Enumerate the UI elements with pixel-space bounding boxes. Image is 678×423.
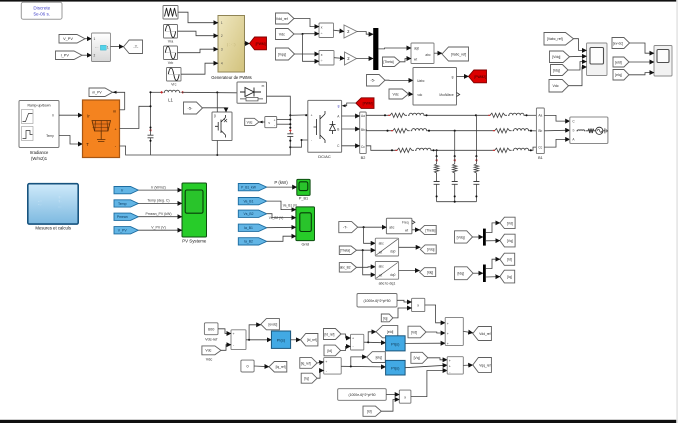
svg-text:Vrc: Vrc bbox=[171, 83, 176, 87]
svg-text:[Iq]: [Iq] bbox=[507, 275, 512, 279]
svg-text:Aa: Aa bbox=[538, 114, 542, 118]
wire Vdc to sum minus bbox=[221, 345, 231, 351]
svg-text:Temp (deg. C): Temp (deg. C) bbox=[147, 199, 169, 203]
PLL block bbox=[386, 218, 412, 234]
From tag Temp blue bbox=[114, 200, 138, 207]
diode block D1 bbox=[237, 82, 267, 103]
bottom DC rail bbox=[120, 146, 291, 155]
svg-text:-: - bbox=[274, 124, 275, 128]
wire Theta to dq0-abc wt bbox=[400, 59, 411, 62]
From tag V_PV bbox=[59, 35, 85, 44]
wire B1 to source B port bbox=[544, 129, 570, 132]
svg-text:Vdc: Vdc bbox=[553, 84, 559, 88]
svg-text:+: + bbox=[352, 336, 354, 340]
svg-text:g: g bbox=[338, 104, 340, 108]
svg-text:Ramp-up/down: Ramp-up/down bbox=[28, 103, 51, 107]
wire Id sum to PI d and eId bbox=[364, 341, 386, 344]
Goto tag [eId] bbox=[376, 326, 398, 338]
From tag [Vqq] bbox=[276, 48, 295, 60]
wire DC bus to inverter plus bbox=[290, 114, 308, 116]
svg-text:[Id_ref]: [Id_ref] bbox=[324, 332, 334, 336]
load branch tap phase A bbox=[475, 115, 477, 156]
svg-text:V_PV (V): V_PV (V) bbox=[151, 225, 166, 229]
wire PV plus to DC bus bbox=[120, 106, 151, 128]
wire Vdq to scope1 bbox=[570, 55, 587, 58]
From tag Vs_B2 blue bbox=[238, 210, 266, 217]
svg-text:+: + bbox=[449, 365, 451, 369]
phase A feeder wire bbox=[366, 114, 388, 116]
svg-text:-5-: -5- bbox=[188, 105, 194, 110]
svg-text:wt: wt bbox=[379, 274, 382, 278]
svg-text:[ev-dc]: [ev-dc] bbox=[613, 41, 623, 45]
RL branch phase B resistor bbox=[391, 129, 410, 133]
wire Vs_B2 to Grid scope bbox=[267, 214, 296, 218]
svg-text:wt: wt bbox=[414, 58, 417, 62]
wire inverter B to B2 bbox=[342, 128, 360, 130]
svg-text:B2: B2 bbox=[361, 156, 366, 160]
Goto tag [Id] bbox=[500, 253, 515, 265]
svg-text:dq0: dq0 bbox=[390, 250, 396, 254]
wire gain1 to mux bbox=[357, 32, 373, 35]
phase A wire to grid side bbox=[425, 114, 488, 116]
frame top border bbox=[0, 0, 678, 2]
From tag Ir blue bbox=[114, 187, 138, 194]
PV array block bbox=[83, 100, 120, 158]
inverter IGBT icon bbox=[314, 111, 326, 143]
wire Idq to demux2 bbox=[473, 272, 483, 274]
wire eId to scope2 bbox=[629, 61, 654, 63]
svg-text:Temp: Temp bbox=[46, 134, 54, 138]
wire Vdq to demux1 bbox=[473, 236, 484, 238]
svg-text:÷: ÷ bbox=[321, 59, 323, 63]
From tag [Vdq] demux feed bbox=[455, 231, 473, 243]
wire 600 to sum bbox=[218, 329, 231, 334]
wire Temp to PV scope bbox=[138, 202, 182, 204]
scope Scope1 bbox=[587, 43, 608, 76]
From tag abc_B2 bbox=[339, 263, 356, 273]
wire Vdc to scope1 bbox=[569, 67, 587, 86]
wire V_PV to PV scope bbox=[138, 229, 182, 231]
wire -5- to IGBT gate bbox=[203, 108, 227, 112]
wire Va_B1 to Grid scope bbox=[267, 201, 296, 210]
svg-text:[Id]: [Id] bbox=[367, 410, 372, 414]
svg-text:[Iq]: [Iq] bbox=[383, 316, 388, 320]
From tag [Vd] feed bbox=[408, 326, 426, 338]
inductor L1 bbox=[160, 91, 162, 93]
scope PV Systeme green bbox=[182, 183, 207, 237]
wire Id to product2 bbox=[381, 400, 399, 412]
svg-text:+: + bbox=[447, 322, 449, 326]
From tag [Iq_ref] feed bbox=[300, 358, 317, 369]
From tag [Vq] feed bbox=[411, 352, 428, 363]
product block wL Iq bbox=[412, 298, 425, 311]
svg-text:[Vqq]: [Vqq] bbox=[278, 52, 286, 56]
svg-text:g: g bbox=[452, 75, 454, 79]
Goto tag Vdc measure bbox=[245, 118, 259, 125]
wire diode out to DC bus right bbox=[267, 96, 291, 115]
svg-text:5e-06 s.: 5e-06 s. bbox=[33, 11, 50, 16]
svg-text:V_PV: V_PV bbox=[63, 37, 73, 41]
svg-text:B: B bbox=[337, 127, 339, 131]
wire Vabc_ref to scope1 bbox=[574, 39, 587, 51]
svg-text:Grid: Grid bbox=[302, 241, 309, 246]
constant wL lower (1000e-6)*2*pi*50 bbox=[338, 389, 387, 401]
From tag Pmean blue bbox=[114, 213, 138, 220]
svg-text:[Theta]: [Theta] bbox=[425, 228, 435, 232]
sum block Vdc error bbox=[231, 330, 246, 350]
demux Demux2 bbox=[483, 265, 486, 283]
voltage measurement block Vdc bbox=[265, 117, 277, 128]
From tag P_B1_kW blue bbox=[238, 184, 266, 191]
svg-text:[Iq_ref]: [Iq_ref] bbox=[276, 365, 286, 369]
wire demux1 to Vd bbox=[486, 223, 500, 233]
svg-text:dq0: dq0 bbox=[414, 47, 420, 51]
svg-text:x: x bbox=[321, 53, 323, 57]
svg-text:DC/AC: DC/AC bbox=[318, 154, 331, 159]
wire Iq to product bbox=[393, 308, 412, 318]
wire L1 to diode node bbox=[182, 91, 238, 94]
wire demux2 to Iq bbox=[486, 276, 500, 278]
wire -T- to PLL and abc-dq0 bbox=[358, 226, 387, 228]
svg-text:PI(s): PI(s) bbox=[277, 337, 286, 342]
svg-text:[Vabc_ref]: [Vabc_ref] bbox=[547, 37, 563, 41]
RC load branch 2 bbox=[454, 155, 456, 157]
sum block Vq_ref three input bbox=[447, 357, 463, 374]
From tag [eId] bbox=[613, 57, 629, 67]
From tag [Id] cross coupling bbox=[363, 406, 381, 416]
svg-text:[PWM]: [PWM] bbox=[363, 101, 373, 105]
frame bottom border bbox=[0, 420, 678, 423]
wire Iq_ref to sum bbox=[317, 362, 324, 363]
svg-text:Vs_B2 (V): Vs_B2 (V) bbox=[269, 216, 284, 220]
wire Ia_B1 to Grid scope bbox=[267, 226, 296, 228]
svg-text:x: x bbox=[417, 303, 419, 307]
svg-text:+: + bbox=[233, 332, 235, 336]
wire ev-dc to scope2 bbox=[630, 43, 655, 53]
PI controller dc PI(s) bbox=[271, 331, 290, 348]
svg-text:Vdc: Vdc bbox=[279, 32, 285, 36]
svg-text:abc: abc bbox=[425, 53, 431, 57]
svg-text:(1000e-6)*2*pi*50: (1000e-6)*2*pi*50 bbox=[364, 299, 391, 303]
wire PWM tag to inverter g bbox=[345, 103, 355, 106]
svg-text:Aa: Aa bbox=[361, 114, 365, 118]
From tag Vdd_ref bbox=[276, 13, 295, 24]
phase B wire to grid side bbox=[428, 130, 493, 132]
grid RL phase B inductor bbox=[513, 129, 530, 131]
From tag [eIq] bbox=[613, 70, 629, 81]
svg-text:P_B1_kW: P_B1_kW bbox=[241, 186, 257, 190]
grid RL phase C resistor bbox=[493, 148, 512, 152]
wire Vd to big sum bbox=[426, 332, 445, 333]
Goto tag m_PV bbox=[89, 88, 113, 97]
svg-text:Vdc: Vdc bbox=[205, 349, 211, 353]
three-phase measurement block B1 bbox=[536, 108, 544, 154]
svg-text:[PWM]: [PWM] bbox=[256, 42, 266, 46]
svg-text:T: T bbox=[86, 142, 89, 147]
svg-text:[Vd]: [Vd] bbox=[507, 221, 513, 225]
wire PI d to sum Vd bbox=[405, 342, 445, 344]
grid RL phase A inductor bbox=[508, 113, 525, 115]
svg-text:[Iq]: [Iq] bbox=[304, 377, 309, 381]
wire 0 to Iq_ref goto bbox=[254, 365, 269, 368]
abc to dq0 transform block 1 bbox=[375, 238, 398, 256]
svg-text:÷: ÷ bbox=[321, 32, 323, 36]
svg-text:[Iq_ref]: [Iq_ref] bbox=[301, 361, 311, 365]
svg-text:abc_B2: abc_B2 bbox=[340, 266, 351, 270]
scope P_B1 green bbox=[297, 179, 310, 195]
svg-text:(W/m2)1: (W/m2)1 bbox=[31, 156, 48, 161]
From tag [Iq] cross coupling bbox=[381, 314, 393, 322]
wire inverter C to B2 bbox=[342, 145, 360, 147]
PI controller d axis PI(s) bbox=[386, 336, 406, 351]
svg-text:Ia_B2: Ia_B2 bbox=[244, 240, 253, 244]
svg-text:V_PV: V_PV bbox=[118, 229, 128, 233]
Goto tag [PWM2] red bbox=[469, 70, 487, 83]
svg-text:[eIq]: [eIq] bbox=[615, 73, 622, 77]
From tag -5- boost gate bbox=[184, 102, 203, 114]
wire mux to dq0-abc bbox=[378, 47, 411, 50]
three-phase source block bbox=[570, 117, 608, 144]
svg-text:abc: abc bbox=[379, 241, 385, 245]
wire IGBT emitter to bottom rail bbox=[216, 141, 218, 156]
wire abc_B2 to dq0 block2 bbox=[357, 266, 376, 269]
Goto tag [Vqq_ref] bbox=[473, 358, 492, 373]
Goto tag [Iq_ref] bbox=[269, 362, 287, 373]
svg-text:Pmean_PV (kW): Pmean_PV (kW) bbox=[145, 212, 171, 216]
svg-text:[Vdq]: [Vdq] bbox=[427, 248, 435, 252]
svg-text:: : :: : : : bbox=[58, 206, 62, 209]
Goto tag [Vq] bbox=[500, 234, 515, 247]
inverter block DC/AC bbox=[308, 100, 342, 152]
svg-text:v: v bbox=[268, 121, 270, 125]
Goto tag [eIq] bbox=[367, 352, 386, 363]
svg-text:-T-: -T- bbox=[133, 44, 139, 49]
svg-text:Vdd_ref: Vdd_ref bbox=[276, 17, 288, 21]
From tag Vdc scope feed bbox=[549, 80, 569, 93]
svg-text:( : · : ): ( : · : ) bbox=[227, 42, 236, 46]
svg-text:1: 1 bbox=[221, 21, 223, 25]
wire PLL wt to Theta goto bbox=[412, 229, 420, 231]
svg-text:vdc: vdc bbox=[417, 93, 422, 97]
wire PI q to sum Vq bbox=[405, 365, 447, 368]
Goto tag [Theta] pll out bbox=[420, 225, 437, 234]
svg-text:P_B1: P_B1 bbox=[299, 197, 308, 201]
wire PWM gen to PWM goto bbox=[245, 43, 250, 45]
Goto tag [Idq] bbox=[420, 268, 436, 277]
svg-text:Mesures et calculs: Mesures et calculs bbox=[35, 226, 71, 231]
svg-text:Bb: Bb bbox=[538, 129, 542, 133]
triangle wave source bbox=[163, 6, 178, 20]
svg-text:Bb: Bb bbox=[361, 128, 365, 132]
wire P_B1_kW to P_B1 scope bbox=[267, 186, 297, 188]
From tag [Theta] top bbox=[383, 57, 401, 67]
wire Pmean to PV scope bbox=[138, 216, 182, 218]
sum block Id error bbox=[351, 334, 364, 350]
wire Irradiance Temp to PV array T bbox=[59, 136, 83, 145]
svg-text:[Idq]: [Idq] bbox=[457, 272, 464, 276]
svg-text:Pmean: Pmean bbox=[117, 215, 128, 219]
From tag I_PV bbox=[56, 51, 83, 60]
svg-text:x: x bbox=[404, 395, 406, 399]
svg-text:+: + bbox=[274, 118, 276, 122]
divide block 2 bbox=[319, 51, 334, 66]
From tag -5- upper bbox=[367, 75, 386, 87]
scope Scope2 bbox=[654, 46, 672, 77]
sine source Vrc bbox=[167, 68, 182, 82]
svg-text:[eIq]: [eIq] bbox=[376, 355, 382, 359]
svg-text:+: + bbox=[449, 359, 451, 363]
Goto tag [evdc] bbox=[261, 319, 280, 330]
wire product to big sum top bbox=[425, 305, 445, 323]
RL branch phase B inductor bbox=[411, 129, 428, 131]
wire dq0 block1 to Vdq goto bbox=[399, 246, 421, 248]
wire triangle to PWM gen port1 bbox=[178, 12, 218, 23]
svg-text:2: 2 bbox=[94, 54, 96, 58]
svg-text:[Id_ref]: [Id_ref] bbox=[307, 338, 317, 342]
wire I_PV to selector port 2 bbox=[82, 54, 92, 56]
From tag [Idq] demux feed bbox=[455, 267, 474, 280]
From tag Vdc bbox=[276, 29, 295, 40]
svg-text:[Vq]: [Vq] bbox=[507, 239, 513, 243]
From tag Va_B1 blue bbox=[238, 198, 266, 205]
svg-text:wt: wt bbox=[405, 229, 408, 233]
wire PV m to m_PV tag bbox=[113, 92, 125, 110]
wire demux1 to Vq bbox=[486, 240, 500, 242]
wire V measure plus to bus bbox=[277, 119, 291, 121]
PV array solar panel icon bbox=[92, 121, 111, 142]
wire Vrc to PWM gen port4 bbox=[181, 63, 218, 74]
svg-text:Vrb: Vrb bbox=[168, 61, 173, 65]
svg-text:Temp: Temp bbox=[118, 202, 127, 206]
wire Vq to sum q bbox=[428, 358, 447, 360]
svg-text:Vra: Vra bbox=[168, 40, 173, 44]
From tag [Id_ref] feed bbox=[324, 329, 342, 340]
Goto tag [Vdq] bbox=[420, 245, 436, 254]
From tag [PWM] red inverter gate bbox=[356, 98, 374, 109]
From tag Ia_B2 blue bbox=[238, 238, 266, 245]
constant 600 Vdc-ref bbox=[204, 323, 218, 335]
wire Iq sum to PI q and eIq bbox=[341, 365, 385, 368]
load branch tap phase B bbox=[454, 131, 456, 157]
RC load branch 3 bbox=[475, 155, 477, 157]
wire V_PV to selector port 1 bbox=[85, 38, 92, 40]
phase C wire to grid side bbox=[432, 149, 493, 151]
svg-text:b: b bbox=[573, 128, 575, 132]
wire Vdd_ref to divide1 bbox=[294, 19, 319, 27]
scope Grid green bbox=[296, 207, 315, 241]
svg-text:600: 600 bbox=[208, 327, 214, 331]
wire eIq to scope2 bbox=[629, 73, 654, 75]
Goto tag [PWM] red bbox=[250, 37, 267, 50]
svg-text:x: x bbox=[321, 26, 323, 30]
svg-text:3: 3 bbox=[221, 47, 223, 51]
wire Vdc to divide1 and divide2 bbox=[294, 33, 319, 35]
svg-text:Generateur de PWMs: Generateur de PWMs bbox=[211, 75, 252, 80]
grid RL phase B resistor bbox=[493, 129, 512, 133]
wire DC rail to IGBT collector bbox=[216, 92, 218, 112]
wire constant to product bbox=[397, 300, 412, 302]
DC bus capacitor C2 bbox=[289, 115, 291, 129]
DC link vertical bus left bbox=[150, 92, 152, 127]
wire Vra to PWM gen port2 bbox=[178, 31, 219, 36]
sum block Iq error bbox=[324, 358, 342, 375]
svg-text:P (kW): P (kW) bbox=[274, 180, 288, 185]
svg-text:Cc: Cc bbox=[538, 145, 542, 149]
wire PI dc to Id_ref goto bbox=[291, 339, 301, 341]
wire divide2 to gain2 bbox=[334, 57, 345, 60]
dq0 to abc transform block bbox=[411, 43, 434, 64]
RL branch phase A inductor bbox=[408, 113, 425, 115]
svg-text:0: 0 bbox=[246, 365, 248, 369]
svg-text:m: m bbox=[262, 84, 265, 88]
wire Irradiance Ir to PV array bbox=[59, 114, 83, 116]
demux Demux1 bbox=[483, 229, 486, 246]
svg-text:Ia_B1: Ia_B1 bbox=[244, 226, 253, 230]
source internal impedance icon bbox=[577, 130, 586, 131]
svg-text:~ : ·: ~ : · bbox=[38, 203, 42, 206]
subsystem Mesures et calculs bbox=[28, 184, 78, 224]
wire big sum to Vdd_ref goto bbox=[463, 331, 473, 332]
svg-text:[Vdq]: [Vdq] bbox=[457, 235, 465, 239]
svg-text:Va_B1 (V): Va_B1 (V) bbox=[283, 203, 297, 207]
wire subsystem g to PWM2 goto bbox=[457, 75, 469, 77]
RL branch phase C inductor bbox=[415, 148, 432, 150]
svg-text:2: 2 bbox=[221, 34, 223, 38]
wire Vqq to divide2 bbox=[295, 53, 320, 55]
wire phase A to B1 bbox=[525, 114, 536, 116]
sine source Vra bbox=[164, 25, 178, 39]
From tag [Vdq] scope feed bbox=[550, 51, 570, 63]
wire Vrb to PWM gen port3 bbox=[178, 49, 219, 53]
wire top DC rail with inductor L1 bbox=[151, 91, 164, 93]
Goto tag [Vabc_ref] bbox=[442, 47, 469, 61]
svg-text:PV Systeme: PV Systeme bbox=[182, 238, 207, 243]
powergui block Discrete 5e-06 s. bbox=[21, 2, 62, 19]
wire DC bus to inverter minus bbox=[290, 140, 308, 147]
svg-text:Cc: Cc bbox=[361, 145, 365, 149]
svg-text:-: - bbox=[311, 139, 312, 143]
svg-text:L1: L1 bbox=[168, 98, 173, 103]
wire phase C to B1 bbox=[530, 147, 537, 150]
svg-text:Irradiance: Irradiance bbox=[30, 150, 49, 155]
svg-text:Vdc: Vdc bbox=[247, 120, 253, 124]
boost IGBT switch block Q1 bbox=[212, 112, 232, 141]
wire sum q to Vqq_ref goto bbox=[463, 364, 473, 366]
svg-text:wt: wt bbox=[379, 250, 382, 254]
svg-text:Vdc: Vdc bbox=[206, 357, 213, 361]
svg-text:Vdc-ref: Vdc-ref bbox=[205, 338, 218, 342]
wire V measure minus to bus bbox=[277, 123, 291, 125]
svg-text:[Vq]: [Vq] bbox=[414, 356, 420, 360]
constant wL upper (1000e-6)*2*pi*50 bbox=[357, 294, 397, 308]
grid RL phase A resistor bbox=[488, 113, 507, 117]
svg-text:Discrete: Discrete bbox=[33, 5, 50, 10]
svg-text:[Id]: [Id] bbox=[327, 349, 332, 353]
wire dq0 block2 to Idq goto bbox=[399, 270, 420, 272]
wire Theta to dq0 blocks bbox=[357, 249, 376, 251]
svg-text:1: 1 bbox=[107, 45, 109, 49]
From tag [Idq] scope feed bbox=[551, 65, 569, 76]
PI controller q axis PI(s) bbox=[386, 360, 406, 375]
wire Vdc to subsystem vdc bbox=[409, 93, 414, 95]
svg-text:[eId]: [eId] bbox=[387, 330, 393, 334]
Goto tag [Vd] bbox=[500, 217, 515, 228]
abc to dq0 transform block 2 bbox=[375, 262, 398, 280]
svg-text:g: g bbox=[214, 113, 216, 117]
wire Ir to PV scope bbox=[138, 189, 182, 191]
svg-text:Ir (W/m2): Ir (W/m2) bbox=[151, 185, 166, 189]
svg-text:abc: abc bbox=[379, 265, 385, 269]
